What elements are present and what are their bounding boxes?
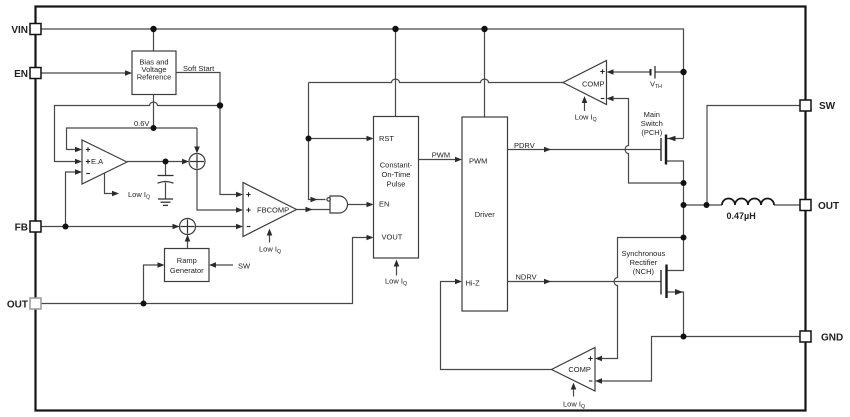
svg-text:GND: GND	[821, 333, 843, 344]
svg-text:(PCH): (PCH)	[641, 128, 662, 137]
svg-text:Low IQ: Low IQ	[563, 400, 585, 411]
svg-text:Soft Start: Soft Start	[183, 64, 215, 73]
svg-text:Pulse: Pulse	[387, 180, 406, 189]
svg-text:Constant-: Constant-	[380, 161, 413, 170]
svg-text:COMP: COMP	[568, 365, 591, 374]
svg-text:Low IQ: Low IQ	[575, 113, 597, 124]
svg-text:COMP: COMP	[582, 80, 605, 89]
svg-text:PWM: PWM	[432, 151, 450, 160]
svg-text:0.47µH: 0.47µH	[727, 211, 756, 221]
svg-text:FBCOMP: FBCOMP	[257, 206, 289, 215]
svg-text:FB: FB	[15, 223, 28, 234]
svg-text:0.6V: 0.6V	[134, 119, 149, 128]
svg-text:Driver: Driver	[475, 210, 496, 219]
svg-text:Low IQ: Low IQ	[128, 190, 150, 201]
svg-text:VOUT: VOUT	[382, 233, 403, 242]
svg-text:Main: Main	[644, 110, 660, 119]
svg-text:SW: SW	[819, 101, 836, 112]
svg-text:Hi-Z: Hi-Z	[466, 279, 481, 288]
svg-text:Low IQ: Low IQ	[259, 245, 281, 256]
svg-text:Switch: Switch	[641, 119, 663, 128]
svg-text:RST: RST	[379, 134, 394, 143]
svg-text:VTH: VTH	[650, 80, 662, 91]
svg-text:PDRV: PDRV	[514, 141, 535, 150]
svg-text:EN: EN	[14, 69, 28, 80]
svg-text:SW: SW	[238, 262, 251, 271]
svg-text:Low IQ: Low IQ	[385, 277, 407, 288]
svg-text:Reference: Reference	[137, 73, 172, 82]
svg-text:VIN: VIN	[11, 25, 28, 36]
svg-text:OUT: OUT	[7, 300, 28, 311]
svg-text:On-Time: On-Time	[382, 170, 411, 179]
svg-text:Generator: Generator	[170, 266, 204, 275]
svg-text:Synchronous: Synchronous	[622, 249, 666, 258]
svg-text:(NCH): (NCH)	[633, 267, 655, 276]
svg-text:EN: EN	[379, 200, 389, 209]
svg-text:OUT: OUT	[818, 201, 839, 212]
svg-text:Rectifier: Rectifier	[630, 258, 658, 267]
svg-text:Ramp: Ramp	[177, 256, 197, 265]
svg-text:E.A: E.A	[91, 157, 103, 166]
svg-text:PWM: PWM	[469, 157, 487, 166]
svg-text:NDRV: NDRV	[516, 273, 537, 282]
